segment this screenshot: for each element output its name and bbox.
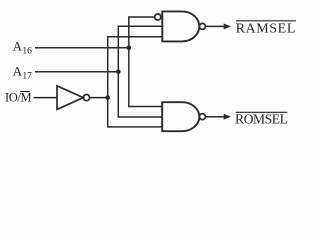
svg-text:ROMSEL: ROMSEL <box>235 112 288 127</box>
NAND gate U2 (RAMSEL) <box>162 11 199 41</box>
wire IO/M input <box>34 97 58 99</box>
wire U3 output arrow <box>206 116 226 118</box>
node IO/M label <box>5 91 31 105</box>
junction dot IO/M rail <box>105 95 110 100</box>
wire A16 input <box>35 47 129 49</box>
svg-text:17: 17 <box>22 72 32 82</box>
svg-text:RAMSEL: RAMSEL <box>236 21 296 36</box>
wire rail A17 (to top gate pin2 and bottom gate pin2) <box>118 26 162 117</box>
inverter U1 <box>57 86 83 110</box>
node A17 label <box>13 63 33 81</box>
wire rail IO/M (to top gate pin3 and bottom gate pin3) <box>108 37 163 127</box>
svg-text:A: A <box>13 38 23 53</box>
svg-text:A: A <box>13 63 23 78</box>
wire A17 input <box>35 71 118 73</box>
wire inverter output <box>90 97 108 99</box>
svg-text:16: 16 <box>22 47 32 57</box>
wire U2 output arrow <box>206 25 226 27</box>
junction dot A16 <box>127 46 132 51</box>
junction dot A17 <box>116 70 121 75</box>
svg-text:IO/M: IO/M <box>5 91 31 105</box>
wire rail A16 (to top gate pin1 bubble and bottom gate pin1) <box>129 17 162 107</box>
NAND U3 output bubble <box>199 114 205 120</box>
net label ROMSEL <box>235 112 288 127</box>
inverter U1 output bubble <box>83 95 89 101</box>
NAND gate U3 (ROMSEL) <box>162 102 199 131</box>
net label RAMSEL <box>236 21 296 37</box>
NAND U2 output bubble <box>199 23 205 29</box>
inverted input bubble on NAND U2 pin1 <box>155 14 161 20</box>
node A16 label <box>13 38 33 56</box>
